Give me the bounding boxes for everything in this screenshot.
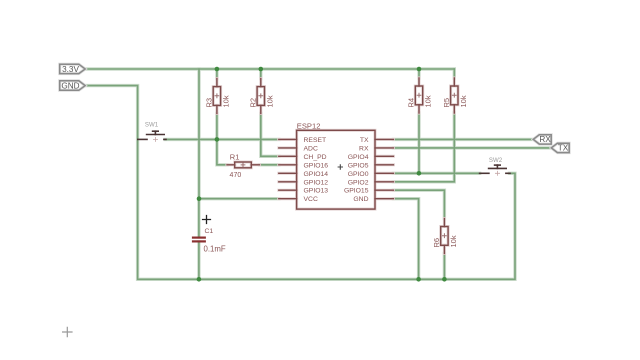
svg-text:CH_PD: CH_PD <box>304 154 327 161</box>
svg-text:TX: TX <box>558 144 569 153</box>
svg-text:ADC: ADC <box>304 145 318 152</box>
svg-text:ESP12: ESP12 <box>297 122 321 131</box>
svg-text:3.3V: 3.3V <box>62 65 79 74</box>
svg-text:R5: R5 <box>442 98 451 108</box>
svg-text:R1: R1 <box>230 152 240 161</box>
svg-text:GPIO15: GPIO15 <box>344 188 369 195</box>
svg-text:SW1: SW1 <box>145 122 159 129</box>
svg-text:GND: GND <box>353 196 368 203</box>
svg-text:R6: R6 <box>432 238 441 248</box>
svg-text:10k: 10k <box>449 235 458 247</box>
svg-text:GPIO14: GPIO14 <box>304 171 329 178</box>
svg-text:GND: GND <box>61 82 79 91</box>
svg-text:10k: 10k <box>424 95 433 107</box>
svg-text:GPIO16: GPIO16 <box>304 162 329 169</box>
svg-text:GPIO12: GPIO12 <box>304 179 329 186</box>
svg-text:GPIO0: GPIO0 <box>348 171 369 178</box>
svg-text:R2: R2 <box>248 98 257 108</box>
svg-text:TX: TX <box>360 137 369 144</box>
svg-text:10k: 10k <box>459 95 468 107</box>
svg-text:C1: C1 <box>205 228 214 235</box>
svg-text:GPIO5: GPIO5 <box>348 162 369 169</box>
svg-text:GPIO4: GPIO4 <box>348 154 369 161</box>
svg-text:470: 470 <box>230 172 242 179</box>
svg-text:SW2: SW2 <box>489 157 503 164</box>
svg-text:GPIO13: GPIO13 <box>304 188 329 195</box>
svg-text:RX: RX <box>359 145 369 152</box>
svg-text:10k: 10k <box>222 95 231 107</box>
svg-text:R3: R3 <box>205 98 214 108</box>
svg-text:GPIO2: GPIO2 <box>348 179 369 186</box>
svg-text:VCC: VCC <box>304 196 318 203</box>
svg-text:R4: R4 <box>407 98 416 108</box>
svg-text:RX: RX <box>539 135 551 144</box>
svg-text:RESET: RESET <box>304 137 327 144</box>
svg-text:10k: 10k <box>265 95 274 107</box>
svg-text:0.1mF: 0.1mF <box>204 244 226 253</box>
